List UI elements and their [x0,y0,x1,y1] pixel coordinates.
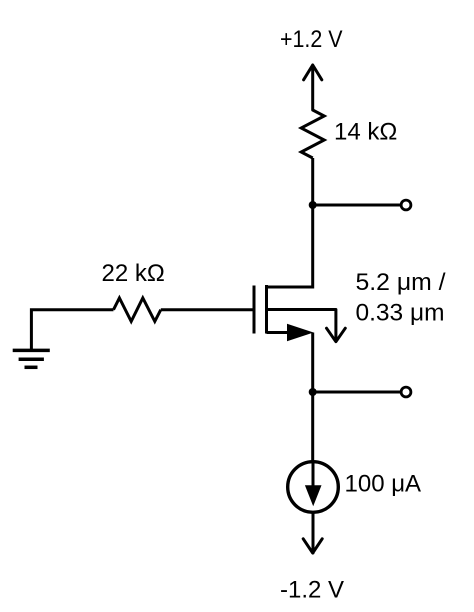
current source arrowhead [305,485,322,506]
svg-text:22 kΩ: 22 kΩ [102,260,165,287]
wire current source to -1.2 V arrow [303,513,322,553]
output terminal (open circle, top) [401,200,411,210]
resistor R2 22 kOhm [114,298,161,321]
wire resistor R1 to drain node [311,158,314,203]
ground symbol [13,350,50,367]
svg-text:5.2 μm /: 5.2 μm / [356,269,446,296]
wire transistor source to source node [311,333,314,393]
source arrow (NMOS) [287,324,314,341]
svg-text:0.33 μm: 0.33 μm [356,299,445,326]
node source junction dot [309,388,317,396]
output terminal (open circle, bottom) [401,387,411,397]
channel bar [265,285,268,334]
current source I1 [288,462,339,513]
power arrow to +1.2 V [304,65,322,110]
wire source node to current source I1 [311,392,314,461]
drain connection [267,286,313,289]
node drain junction dot [309,201,317,209]
wire drain node to transistor drain [311,205,314,289]
gate bar [253,286,256,334]
svg-text:100 μA: 100 μA [345,470,422,497]
svg-text:14 kΩ: 14 kΩ [334,119,397,146]
wire source node to output terminal [313,391,401,394]
wire drain node to output terminal [313,204,401,207]
drain current direction arrow [267,310,346,342]
svg-text:-1.2 V: -1.2 V [280,577,344,604]
wire resistor R2 to ground [31,310,113,351]
svg-text:+1.2 V: +1.2 V [280,26,343,53]
source connection [267,331,289,334]
resistor R1 14 kOhm [301,110,324,158]
transistor M1 NMOS [254,285,313,334]
current source arrow shaft [312,461,315,491]
wire gate to gate resistor [161,308,254,311]
